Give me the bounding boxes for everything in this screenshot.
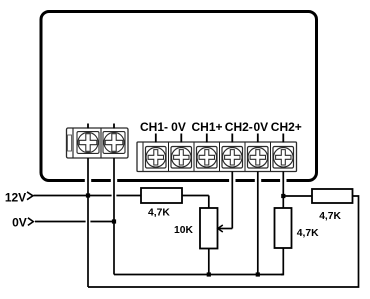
- pin J2-1: [155, 134, 157, 143]
- wire R3 bottom to rail corner: [281, 248, 283, 275]
- wire from J1-1 down to 12V junction: [87, 158, 89, 196]
- svg-text:12V: 12V: [5, 191, 26, 205]
- wire 12V horizontal: [34, 195, 112, 197]
- left terminal block J1 (power input, 2 screws): [67, 128, 129, 158]
- pin J2-6: [282, 134, 284, 143]
- wire J2-5 0V down to rail: [257, 172, 259, 275]
- junction node 0V: [112, 219, 116, 223]
- wire wiper horizontal into pot: [218, 228, 232, 230]
- wire R4 right end down right edge to 12V rail: [88, 196, 359, 287]
- wire R1 right to pot top corner: [182, 195, 209, 197]
- wire down into pot top: [208, 196, 210, 209]
- screw terminal J2-3 CH1+: [197, 147, 218, 169]
- svg-text:CH2-: CH2-: [225, 120, 253, 134]
- svg-text:0V: 0V: [12, 215, 27, 229]
- svg-text:4,7K: 4,7K: [319, 211, 341, 222]
- wire CH2- wiper vertical: [231, 172, 233, 229]
- screw terminal J1-1: [77, 132, 99, 154]
- pin J1-1 top: [87, 124, 89, 129]
- input port chevron 12V: [27, 192, 33, 200]
- wire from J1-2 down to bottom 0V rail: [113, 158, 115, 275]
- potentiometer R2 10K (vertical): [200, 208, 218, 249]
- wire CH2+ junction to R4: [283, 195, 312, 197]
- wire J2-6 CH2+ down: [282, 172, 284, 209]
- svg-text:10K: 10K: [174, 225, 193, 236]
- white gaps where wires cross device bottom edge: [85, 177, 287, 185]
- pin J2-2: [180, 134, 182, 143]
- wire 12V down to bottom rail: [87, 196, 89, 288]
- screw terminal J2-4 CH2-: [222, 147, 243, 169]
- pin J2-3: [206, 134, 208, 143]
- svg-text:CH1+: CH1+: [191, 120, 222, 134]
- device module outline U1: [41, 12, 317, 181]
- svg-text:4,7K: 4,7K: [148, 208, 170, 219]
- wire 0V horizontal (after crossover gap): [90, 221, 114, 223]
- 0V bottom rail (upper): [114, 274, 283, 276]
- wiper arrowhead (open): [218, 225, 223, 232]
- input port chevron 0V: [28, 218, 33, 226]
- pin J2-5: [257, 134, 259, 143]
- junction node 0V rail: [256, 272, 260, 276]
- pin J2-4: [231, 134, 233, 143]
- screw terminal J2-5 0V: [248, 147, 269, 169]
- junction node 12V: [86, 193, 90, 197]
- wire 12V horizontal (after crossover gap): [116, 195, 141, 197]
- resistor R4 4,7K (horizontal right): [312, 189, 353, 203]
- junction node CH2+: [281, 194, 285, 198]
- resistor R3 4,7K (vertical): [275, 208, 292, 248]
- pin J1-2 top: [113, 124, 115, 129]
- screw terminal J1-2: [103, 132, 125, 154]
- screw terminal J2-2 0V: [171, 147, 192, 169]
- svg-text:0V: 0V: [253, 120, 268, 134]
- right terminal block J2 (6 screws): [137, 142, 297, 172]
- screw terminal J2-6 CH2+: [273, 147, 294, 169]
- wire 0V horizontal: [35, 221, 86, 223]
- wire pot bottom to 0V rail: [208, 249, 210, 275]
- svg-text:4,7K: 4,7K: [297, 228, 319, 239]
- svg-text:0V: 0V: [171, 120, 186, 134]
- screw terminal J2-1 CH1-: [146, 147, 167, 169]
- svg-text:CH1-: CH1-: [140, 120, 168, 134]
- resistor R1 4,7K (horizontal left): [141, 188, 182, 203]
- junction node pot bottom on rail: [207, 272, 211, 276]
- svg-text:CH2+: CH2+: [271, 120, 302, 134]
